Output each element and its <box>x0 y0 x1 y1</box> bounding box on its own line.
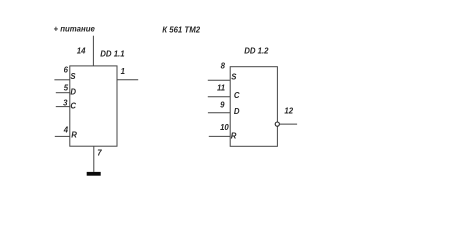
wire pin 9 (D input DD1.2) <box>208 112 230 114</box>
svg-text:DD 1.1: DD 1.1 <box>100 49 124 58</box>
ground symbol <box>87 172 101 176</box>
svg-text:S: S <box>70 72 76 81</box>
svg-text:5: 5 <box>64 83 69 92</box>
svg-text:+ питание: + питание <box>54 25 96 34</box>
svg-text:C: C <box>70 102 76 111</box>
svg-text:9: 9 <box>220 101 225 110</box>
svg-text:4: 4 <box>63 126 69 135</box>
wire pin 11 (C input DD1.2) <box>208 96 230 98</box>
wire pin 1 (output DD1.1) <box>117 79 138 81</box>
svg-text:1: 1 <box>121 67 125 76</box>
svg-text:DD 1.2: DD 1.2 <box>244 47 269 56</box>
svg-text:10: 10 <box>220 123 229 132</box>
svg-text:3: 3 <box>63 98 68 107</box>
svg-text:D: D <box>70 87 76 96</box>
svg-text:R: R <box>231 131 237 140</box>
svg-text:6: 6 <box>64 66 69 75</box>
wire pin 5 (D input DD1.1) <box>56 92 70 94</box>
svg-text:8: 8 <box>221 61 226 70</box>
wire pin 3 (C input DD1.1) <box>56 106 70 108</box>
flip-flop DD1.1 body <box>70 66 117 146</box>
svg-text:C: C <box>234 91 240 100</box>
svg-text:12: 12 <box>284 107 293 116</box>
wire pin 12 (inverted output DD1.2) <box>280 123 297 125</box>
wire pin 7 (ground) <box>93 146 95 172</box>
svg-text:D: D <box>234 107 240 116</box>
flip-flop DD1.2 body <box>230 67 277 147</box>
svg-text:11: 11 <box>217 83 225 92</box>
wire pin 6 (S input DD1.1) <box>54 79 69 81</box>
wire pin 14 (power) <box>92 36 94 66</box>
svg-text:14: 14 <box>77 47 86 56</box>
wire pin 4 (R input DD1.1) <box>55 135 70 137</box>
wire pin 8 (S input DD1.2) <box>208 79 230 81</box>
svg-text:7: 7 <box>97 149 102 158</box>
svg-text:S: S <box>231 73 237 82</box>
inversion bubble (output DD1.2) <box>275 122 279 126</box>
wire pin 10 (R input DD1.2) <box>209 135 230 137</box>
svg-text:R: R <box>71 131 77 140</box>
svg-text:К 561 ТМ2: К 561 ТМ2 <box>162 26 200 35</box>
